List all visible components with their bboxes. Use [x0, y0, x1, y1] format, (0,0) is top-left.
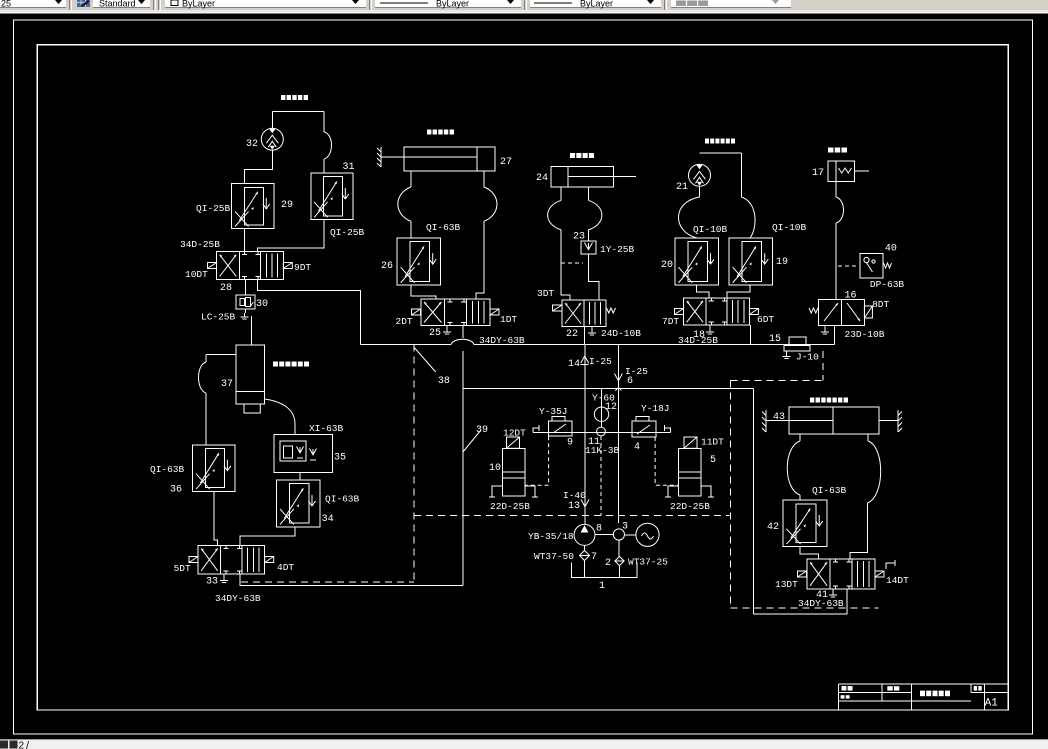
damper circle 11	[601, 421, 603, 427]
hydraulic pump 8 YB-35/18	[574, 524, 595, 545]
svg-text:6DT: 6DT	[757, 314, 774, 325]
toolbar separator	[153, 0, 154, 10]
check valve 6 I-25	[617, 345, 619, 523]
tank under J-10	[786, 351, 788, 353]
svg-text:25: 25	[429, 328, 441, 339]
svg-text:QI-25B: QI-25B	[330, 227, 365, 238]
wire pump32 riser	[271, 111, 273, 128]
branch line to cluster8 feed	[463, 388, 753, 390]
tank under valve 25	[446, 326, 448, 329]
dashed power unit top boundary	[414, 515, 730, 517]
throttle valve QI-10B 19	[729, 238, 772, 285]
main bus line with crossover bump	[361, 344, 452, 346]
pressure switch DP-63B 40	[860, 253, 883, 278]
directional valve 41 34DY-63B	[807, 559, 875, 589]
dashed pilot left to valve 10	[525, 436, 549, 485]
solenoid 7DT of valve 18	[675, 309, 684, 315]
wire valve33 drain to drain line	[240, 574, 463, 586]
throttle valve QI-10B 20	[675, 238, 718, 285]
drain brackets valve 5	[668, 486, 678, 497]
junction box J-10 15	[789, 337, 806, 346]
wire pump21 to bell	[699, 187, 701, 198]
svg-text:2DT: 2DT	[396, 316, 413, 327]
dashed gauge drain	[600, 436, 602, 516]
svg-text:ByLayer: ByLayer	[580, 0, 613, 9]
directional valve 28 34D-25B	[217, 252, 284, 280]
drain riser x463	[462, 351, 464, 586]
solenoid 4DT of valve 33	[265, 557, 274, 563]
throttle valve QI-63B 34	[277, 480, 320, 527]
caption cluster8	[810, 398, 848, 403]
wire QI31 to valve28	[257, 220, 324, 252]
svg-text:20: 20	[661, 260, 673, 271]
throttle valve QI-63B 36	[193, 445, 235, 492]
toolbar icon button	[75, 0, 91, 8]
tank 1	[571, 563, 637, 578]
wire QI42 to valve41	[800, 546, 819, 559]
suction strainer 7 WT37-50	[584, 545, 586, 551]
svg-text:32: 32	[246, 139, 258, 150]
solenoid 3DT of valve 22	[553, 305, 563, 311]
dashed manifold boundary bottom left	[241, 581, 414, 583]
relief header line	[533, 432, 671, 434]
svg-text:10DT: 10DT	[185, 269, 208, 280]
svg-text:38: 38	[438, 376, 450, 387]
label 39 leader	[463, 430, 481, 452]
svg-text:8: 8	[596, 524, 602, 535]
svg-text:23D-10B: 23D-10B	[845, 329, 885, 340]
svg-text:12DT: 12DT	[503, 428, 526, 439]
svg-text:2: 2	[605, 558, 611, 569]
svg-text:DP-63B: DP-63B	[870, 279, 905, 290]
wire bell-right to 1Y valve	[588, 232, 590, 241]
wire pump21 header	[700, 152, 742, 154]
svg-text:QI-10B: QI-10B	[772, 222, 807, 233]
solenoid 1DT of valve 25	[490, 309, 499, 315]
caption cluster6	[273, 362, 309, 367]
wire valve28 right port down to bus	[257, 280, 360, 345]
wall anchor left of cylinder 43	[765, 410, 767, 432]
svg-text:3: 3	[622, 522, 628, 533]
svg-text:34: 34	[322, 514, 334, 525]
wire valve28 to LC valve 30	[245, 280, 247, 296]
dashed pilot right to valve 5	[655, 437, 678, 485]
dashed boundary stub under J-10	[822, 351, 824, 381]
throttle valve QI-25B 29	[232, 184, 274, 229]
svg-text:34DY-63B: 34DY-63B	[798, 598, 844, 609]
svg-text:1Y-25B: 1Y-25B	[600, 244, 635, 255]
svg-text:19: 19	[776, 257, 788, 268]
check valve 1Y-25B 23	[581, 241, 596, 254]
svg-text:35: 35	[334, 453, 346, 464]
electric motor	[625, 534, 636, 536]
wire valve16 to bus	[834, 326, 836, 345]
svg-text:I-40: I-40	[563, 490, 586, 501]
wall anchor of cylinder 27	[380, 147, 382, 167]
svg-text:12: 12	[605, 402, 617, 413]
directional valve 16 23D-10B	[818, 300, 864, 326]
svg-text:36: 36	[170, 485, 182, 496]
svg-text:2: 2	[19, 741, 25, 749]
svg-text:8DT: 8DT	[872, 299, 889, 310]
tank under valve 18	[709, 325, 711, 328]
svg-text:3DT: 3DT	[537, 288, 554, 299]
title block small labels	[842, 686, 853, 691]
dashed pilot to DP-63B	[838, 265, 859, 267]
svg-text:QI-63B: QI-63B	[426, 222, 461, 233]
wire pump32 top header	[272, 110, 324, 112]
bell shoulders under cylinder 24	[560, 187, 562, 201]
spring actuator 17	[828, 161, 855, 181]
wire bell-left to QI26	[410, 224, 412, 238]
svg-text:1: 1	[599, 581, 605, 592]
feed riser to cluster8	[753, 389, 847, 615]
svg-text:11K-3B: 11K-3B	[585, 445, 620, 456]
svg-text:QI-10B: QI-10B	[693, 224, 728, 235]
wire QI20 to valve18	[697, 285, 710, 298]
wire 1Y to valve22	[589, 254, 600, 300]
svg-text:J-10: J-10	[796, 352, 819, 363]
suction strainer 2 WT37-25	[618, 540, 620, 556]
gauge branch Y-60	[601, 389, 603, 408]
status bar	[0, 739, 1048, 749]
svg-text:40: 40	[885, 244, 897, 255]
wire pump32 to QI29	[245, 150, 273, 183]
solenoid 10DT of valve 28	[208, 263, 217, 269]
solenoid 14DT of valve 41	[875, 571, 884, 577]
bell shoulders cluster4	[678, 197, 699, 238]
svg-text:ByLayer: ByLayer	[436, 0, 469, 9]
wire QI19 to valve18	[727, 285, 750, 298]
svg-text:14DT: 14DT	[886, 575, 909, 586]
wire XI35 to QI34	[299, 473, 301, 480]
svg-text:15: 15	[769, 334, 781, 345]
svg-text:42: 42	[767, 522, 779, 533]
svg-text:39: 39	[476, 425, 488, 436]
wire valve25 drain down crossing bus	[462, 326, 464, 339]
solenoid valve 10 22D-25B	[502, 448, 524, 496]
drain elbow left	[533, 428, 539, 433]
dashed boundary bottom right	[731, 607, 879, 609]
svg-text:28: 28	[220, 283, 232, 294]
tank under valve 41	[832, 589, 834, 591]
cylinder 27	[404, 147, 495, 171]
solenoid 13DT of valve 41	[798, 571, 807, 577]
svg-text:14: 14	[568, 359, 580, 370]
svg-text:13: 13	[568, 501, 580, 512]
directional valve 33 34DY-63B	[198, 545, 265, 573]
pilot dashed tie	[561, 262, 583, 264]
svg-text:7DT: 7DT	[662, 316, 679, 327]
svg-text:QI-63B: QI-63B	[812, 485, 847, 496]
svg-text:30: 30	[256, 299, 268, 310]
svg-text:1DT: 1DT	[500, 314, 517, 325]
svg-text:QI-63B: QI-63B	[325, 494, 360, 505]
caption cluster5	[828, 148, 847, 153]
cylinder 43	[789, 407, 879, 434]
wire valve18 to bus	[749, 325, 751, 344]
svg-text:29: 29	[281, 200, 293, 211]
wire cyl37 left feed with bump	[206, 354, 236, 356]
svg-text:ByLayer: ByLayer	[182, 0, 215, 9]
svg-text:5: 5	[710, 455, 716, 466]
wire valve22 to bus	[584, 327, 586, 345]
solenoid 8DT of valve 16	[864, 306, 872, 318]
check valve 13 I-40	[581, 500, 589, 507]
svg-text:17: 17	[812, 168, 824, 179]
svg-text:I-25: I-25	[589, 356, 612, 367]
svg-text:LC-25B: LC-25B	[201, 312, 236, 323]
svg-text:26: 26	[381, 261, 393, 272]
solenoid valve 5 22D-25B	[678, 448, 700, 496]
pump 21 motor	[689, 164, 711, 186]
svg-text:10: 10	[489, 463, 501, 474]
cylinder 24	[551, 166, 614, 187]
wire pump pressure riser	[584, 345, 586, 525]
toolbar separator	[369, 0, 370, 10]
svg-text:25: 25	[1, 0, 11, 9]
tank under valve 22	[591, 327, 593, 330]
toolbar separator	[69, 0, 70, 10]
toolbar text style combo Standard	[93, 0, 150, 7]
svg-text:24D-10B: 24D-10B	[601, 328, 641, 339]
toolbar linetype combo ByLayer	[375, 0, 521, 7]
svg-text:7: 7	[591, 552, 597, 563]
svg-text:A1: A1	[985, 698, 999, 710]
bell shoulders cluster8	[799, 434, 801, 441]
title block table	[839, 684, 1009, 710]
wire actuator17 down with bump	[835, 181, 837, 197]
svg-text:WT37-25: WT37-25	[628, 557, 668, 568]
wire bell-left to valve22	[561, 232, 570, 300]
toolbar plot style combo (disabled)	[671, 0, 791, 7]
wire QI36 to valve33	[214, 491, 217, 545]
svg-text:6: 6	[627, 376, 633, 387]
filter 14 I-25	[581, 356, 589, 363]
solenoid 9DT of valve 28	[283, 263, 292, 269]
toolbar color combo ByLayer	[165, 0, 366, 7]
tank under valve 16	[824, 326, 826, 328]
solenoid 2DT of valve 25	[412, 309, 421, 315]
pilot valve LC-25B 30	[236, 295, 255, 309]
solenoid 6DT of valve 18	[749, 309, 758, 315]
caption cluster4	[705, 139, 735, 144]
wire cyl37 right to XI35	[265, 399, 295, 435]
svg-text:13DT: 13DT	[775, 579, 798, 590]
toolbar layer combo (cut)	[0, 0, 66, 7]
wire QI29 to valve28	[244, 229, 246, 252]
wire right down to bell	[740, 153, 742, 197]
directional valve 25 34DY-63B	[421, 299, 490, 326]
svg-text:21: 21	[676, 182, 688, 193]
svg-text:5DT: 5DT	[174, 563, 191, 574]
coupling circle 3	[595, 534, 613, 536]
junction tick	[615, 388, 621, 391]
svg-text:4DT: 4DT	[277, 562, 294, 573]
wire QI26 to valve25	[411, 285, 436, 299]
wire QI34 to valve33	[240, 527, 295, 546]
svg-text:QI-25B: QI-25B	[196, 203, 231, 214]
wire bell-right to valve41	[850, 507, 868, 559]
svg-text:4: 4	[634, 442, 640, 453]
pilot operated valve XI-63B 35	[274, 435, 332, 473]
throttle valve QI-25B 31	[311, 173, 353, 220]
pump 32	[261, 128, 283, 150]
svg-text:XI-63B: XI-63B	[309, 423, 344, 434]
wall anchor right of cylinder 43	[897, 410, 899, 432]
bell shoulders under cylinder 27	[410, 171, 412, 187]
svg-text:Y-35J: Y-35J	[539, 406, 568, 417]
svg-text:37: 37	[221, 379, 233, 390]
svg-text:WT37-50: WT37-50	[534, 551, 574, 562]
throttle valve QI-63B 42	[783, 500, 827, 546]
wire bell-right to valve25	[476, 224, 484, 299]
svg-text:22D-25B: 22D-25B	[670, 501, 710, 512]
relief valve 4 Y-18J	[632, 421, 656, 437]
rod of cylinder 27	[381, 156, 404, 158]
throttle valve QI-63B 26	[397, 238, 440, 285]
relief valve 9 Y-35J	[549, 421, 572, 436]
toolbar separator	[524, 0, 525, 10]
toolbar lineweight combo ByLayer	[530, 0, 661, 7]
directional valve 18 34D-25B	[684, 298, 750, 325]
vertical cylinder 37	[236, 345, 265, 404]
drain elbow right	[665, 428, 671, 433]
svg-text:11DT: 11DT	[701, 437, 724, 448]
wire right branch with bump to valve31	[323, 111, 325, 132]
dashed boundary right vertical	[730, 381, 732, 608]
svg-text:24: 24	[536, 173, 548, 184]
toolbar strip	[0, 0, 1048, 10]
svg-text:Y-18J: Y-18J	[641, 403, 670, 414]
tank under valve 30	[245, 309, 247, 313]
label 38 leader	[414, 347, 436, 372]
svg-text:31: 31	[343, 162, 355, 173]
svg-text:YB-35/18: YB-35/18	[528, 531, 574, 542]
svg-text:43: 43	[773, 412, 785, 423]
dashed boundary top toward J-10	[731, 380, 824, 382]
directional valve 22 24D-10B	[562, 300, 606, 327]
pressure gauge 12 Y-60	[594, 407, 608, 421]
status bar layout tab text	[0, 741, 8, 749]
svg-text:34DY-63B: 34DY-63B	[215, 593, 261, 604]
caption cluster1	[281, 95, 308, 100]
caption cluster3	[570, 153, 594, 158]
svg-text:Standard: Standard	[99, 0, 136, 9]
svg-text:22D-25B: 22D-25B	[490, 501, 530, 512]
wire LC30 to cylinder 37	[250, 316, 252, 345]
svg-text:34D-25B: 34D-25B	[180, 239, 220, 250]
drain brackets valve 10	[492, 486, 502, 497]
svg-text:16: 16	[845, 291, 857, 302]
svg-text:QI-63B: QI-63B	[150, 464, 185, 475]
spring of valve 16	[809, 308, 818, 313]
spring of valve 22	[607, 308, 616, 313]
caption cluster2	[427, 130, 454, 135]
svg-text:22: 22	[566, 329, 578, 340]
tank under valve 33	[223, 574, 225, 577]
svg-text:27: 27	[500, 157, 512, 168]
title block drawing name	[920, 691, 950, 697]
svg-text:33: 33	[206, 577, 218, 588]
dashed manifold boundary left vertical	[413, 345, 415, 582]
toolbar separator	[664, 0, 665, 10]
solenoid 5DT of valve 33	[189, 557, 198, 563]
svg-text:9DT: 9DT	[294, 262, 311, 273]
svg-text:9: 9	[567, 438, 573, 449]
